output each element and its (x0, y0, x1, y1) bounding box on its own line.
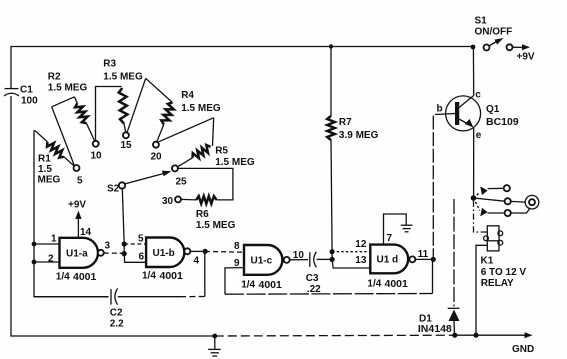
svg-text:4: 4 (194, 256, 200, 267)
svg-text:1.5: 1.5 (38, 164, 52, 175)
output jack double circle (525, 195, 539, 209)
svg-text:C3: C3 (306, 273, 319, 284)
node top rail / R7 junction (329, 44, 333, 48)
relay coil K1 (487, 226, 499, 251)
svg-text:15: 15 (121, 140, 133, 151)
svg-text:12: 12 (355, 239, 367, 250)
wire pin11 down to feedback run (432, 259, 434, 293)
svg-text:S1: S1 (475, 16, 488, 27)
svg-text:9: 9 (234, 258, 240, 269)
svg-text:GND: GND (512, 344, 534, 355)
svg-text:+9V: +9V (68, 200, 86, 211)
pin 4 output wire (190, 250, 205, 252)
transistor Q1 BC109 (446, 96, 481, 131)
wire emitter down (473, 128, 475, 199)
wire base down to pin 11 (432, 116, 434, 260)
wire U1-b out down to C2 (204, 251, 206, 296)
svg-text:1/4: 1/4 (56, 272, 70, 283)
svg-text:1/4: 1/4 (142, 271, 156, 282)
node U1-b output junction (203, 249, 208, 254)
svg-text:MEG: MEG (38, 175, 61, 186)
node top rail / S1 junction (471, 45, 476, 50)
svg-text:1.5 MEG: 1.5 MEG (181, 103, 221, 114)
capacitor C3 .22 (309, 252, 311, 267)
relay contact arm lower (474, 198, 480, 211)
svg-text:U1-b: U1-b (153, 248, 175, 259)
pin 9 wire (225, 268, 244, 295)
wire left timing bus (34, 130, 109, 296)
svg-text:RELAY: RELAY (481, 278, 514, 289)
pin 8 wire (205, 250, 244, 253)
wire bottom rail dashed middle (215, 334, 455, 337)
svg-text:1.5 MEG: 1.5 MEG (48, 83, 88, 94)
contact 5 of S2 (74, 165, 80, 171)
svg-text:13: 13 (355, 255, 367, 266)
svg-text:R4: R4 (181, 90, 194, 101)
node coil return (473, 333, 478, 338)
contact 10 of S2 (93, 141, 99, 147)
wire top supply rail (11, 47, 473, 90)
resistor R1 1.5 MEG (35, 130, 48, 142)
svg-text:+9V: +9V (517, 52, 535, 63)
svg-text:1: 1 (51, 234, 57, 245)
svg-text:U1-c: U1-c (251, 256, 273, 267)
node pin5 junction (122, 241, 127, 246)
NOR gate U1-c (1/4 4001) (244, 245, 282, 275)
pin 12 wire (332, 251, 370, 253)
svg-text:Q1: Q1 (486, 104, 500, 115)
svg-text:1/4: 1/4 (241, 280, 255, 291)
NOR gate U1-d (1/4 4001) (370, 245, 408, 274)
svg-text:R1: R1 (38, 154, 51, 165)
wire collector to rail (472, 47, 474, 96)
svg-text:4001: 4001 (385, 278, 409, 290)
NOR gate U1-b (1/4 4001) (146, 237, 184, 267)
svg-text:100: 100 (21, 96, 38, 107)
svg-text:S2: S2 (107, 184, 120, 195)
wire coil to ground rail (476, 245, 487, 335)
pin 11 output wire (415, 258, 433, 260)
node pin 11 junction (431, 257, 436, 262)
node pin2 junction (32, 260, 37, 265)
svg-text:R5: R5 (215, 146, 228, 157)
svg-text:1/4: 1/4 (367, 279, 381, 290)
resistor R7 3.9 MEG (330, 47, 332, 117)
svg-text:2.2: 2.2 (110, 319, 124, 330)
node pin1 junction (32, 242, 37, 247)
svg-text:25: 25 (176, 177, 188, 188)
svg-text:R7: R7 (339, 117, 352, 128)
svg-text:2: 2 (48, 254, 54, 265)
svg-text:5: 5 (138, 234, 144, 245)
svg-text:c: c (475, 90, 481, 101)
svg-text:4001: 4001 (160, 270, 184, 282)
contact 30 of S2 (175, 196, 181, 202)
svg-text:11: 11 (418, 249, 429, 260)
capacitor C2 2.2 feedback (34, 296, 109, 298)
svg-text:C1: C1 (20, 85, 33, 96)
pin 5 wire (124, 243, 146, 245)
pin 2 wire (34, 261, 60, 263)
resistor R2 1.5 MEG (52, 107, 75, 166)
svg-text:8: 8 (234, 241, 240, 252)
svg-text:ON/OFF: ON/OFF (475, 27, 513, 38)
pin 13 wire (332, 259, 370, 268)
contact 25 of S2 (172, 165, 178, 171)
pin 1 wire (34, 243, 60, 245)
ground symbol at pin 7 (401, 224, 413, 226)
wire base (435, 114, 455, 115)
ground symbol bottom center (212, 334, 217, 339)
node U1-a output junction (122, 251, 127, 256)
svg-text:20: 20 (151, 152, 163, 163)
resistor R6 1.5 MEG (178, 168, 233, 200)
svg-text:.22: .22 (307, 284, 321, 295)
svg-text:6 TO 12 V: 6 TO 12 V (481, 267, 527, 278)
wire left rail below C1 (11, 96, 215, 336)
svg-text:U1-a: U1-a (66, 249, 88, 260)
pin 10 output wire (290, 259, 308, 261)
wire S2 wiper to gate bus (122, 189, 146, 263)
relay contact arm middle (474, 198, 505, 201)
svg-text:R2: R2 (48, 72, 61, 83)
svg-text:1.5 MEG: 1.5 MEG (215, 157, 255, 168)
svg-text:U1 d: U1 d (377, 255, 399, 266)
resistor R4 1.5 MEG (127, 78, 146, 132)
svg-text:30: 30 (162, 196, 174, 207)
svg-text:1.5 MEG: 1.5 MEG (196, 220, 236, 231)
svg-text:R3: R3 (103, 59, 116, 70)
wire bottom rail to GND arrow (455, 334, 526, 336)
svg-text:3.9 MEG: 3.9 MEG (339, 130, 379, 141)
svg-text:7: 7 (387, 233, 393, 244)
resistor R5 1.5 MEG (158, 118, 214, 143)
svg-text:4001: 4001 (259, 279, 283, 291)
svg-text:b: b (437, 104, 443, 115)
contact 20 of S2 (153, 142, 159, 148)
svg-text:10: 10 (293, 250, 305, 261)
contact 15 of S2 (123, 132, 129, 138)
svg-text:IN4148: IN4148 (418, 323, 452, 335)
svg-text:K1: K1 (481, 256, 494, 267)
svg-text:5: 5 (77, 176, 83, 187)
pin 3 output wire (104, 252, 124, 254)
svg-text:6: 6 (139, 252, 145, 263)
svg-text:C2: C2 (110, 308, 123, 319)
svg-text:10: 10 (91, 151, 103, 162)
svg-text:R6: R6 (196, 209, 209, 220)
pin 7 ground wire (384, 214, 407, 245)
node emitter / contacts junction (471, 195, 477, 201)
svg-text:4001: 4001 (73, 271, 97, 283)
svg-text:BC109: BC109 (486, 116, 519, 128)
diode D1 1N4148 (453, 199, 455, 307)
NOR gate U1-a (1/4 4001) (60, 238, 98, 268)
svg-text:e: e (476, 130, 482, 141)
node C3 / R7 junction (331, 252, 333, 260)
rotary switch S2 wiper (119, 182, 125, 188)
capacitor C1 (5, 88, 19, 90)
relay contact arm upper (474, 192, 481, 198)
svg-text:3: 3 (105, 241, 111, 252)
wire link to relay coil (474, 201, 488, 232)
svg-text:1.5 MEG: 1.5 MEG (103, 72, 143, 83)
resistor R3 1.5 MEG (96, 87, 122, 141)
svg-text:14: 14 (80, 227, 92, 238)
